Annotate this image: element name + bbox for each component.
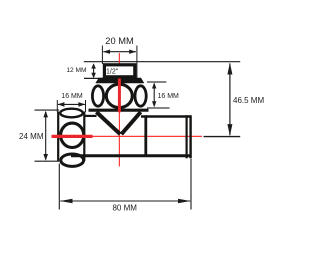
nut baseline [89, 109, 149, 112]
pipe end cap inner line [186, 115, 188, 158]
dimension 20 MM extension line left [101, 46, 103, 65]
dimension 24 MM extension lines [35, 109, 60, 111]
body bottom line [71, 154, 191, 157]
funnel V right stroke [121, 112, 140, 134]
svg-text:1/2": 1/2" [106, 69, 119, 76]
dimension 46.5 MM bottom tick line [204, 136, 241, 138]
dimension 16 MM (right of nut) top extension line [147, 81, 166, 83]
dimension 16 MM (right of nut) double arrow [152, 83, 156, 108]
pipe end cap outer line [189, 115, 191, 158]
pipe top line [141, 115, 191, 117]
svg-text:12 MM: 12 MM [66, 67, 86, 74]
dimension 80 MM line with outward arrows [60, 199, 191, 204]
dimension 80 MM left extension line [58, 164, 60, 210]
svg-text:16 MM: 16 MM [158, 93, 180, 100]
nut right ellipse [135, 86, 146, 106]
nut left ellipse [92, 86, 103, 106]
left cylinder top ellipse [60, 109, 83, 118]
dimension 46.5 MM vertical line with arrows [227, 63, 232, 136]
collar flange (black) [95, 78, 144, 84]
thick red horizontal centerline through left cylinder (over black) [52, 135, 93, 138]
dimension 16 MM (left) line with outward arrows [58, 102, 86, 107]
dimension 24 MM double arrow [43, 111, 48, 161]
left cylinder right side [83, 112, 85, 161]
body top shelf left of V [84, 115, 97, 117]
nut center ellipse [106, 84, 132, 107]
left cylinder left side [57, 112, 59, 161]
dimension 16 MM (left) extension lines [56, 100, 58, 112]
left cylinder middle ellipse [61, 123, 84, 147]
svg-text:20 MM: 20 MM [105, 36, 133, 46]
thick red vertical centerline through nut (over black) [118, 79, 121, 113]
dimension 16 MM (right of nut) bottom extension line [147, 107, 170, 109]
thin red vertical centerline of top port [118, 53, 120, 167]
1/2 inch threaded fitting rectangle [104, 65, 134, 77]
svg-text:16 MM: 16 MM [61, 93, 83, 100]
left cylinder bottom ellipse [61, 154, 84, 166]
dimension 80 MM right extension line [190, 159, 192, 210]
svg-text:80 MM: 80 MM [112, 204, 137, 213]
pipe left edge [144, 115, 147, 155]
svg-text:24 MM: 24 MM [19, 132, 44, 141]
top extension line (long, at top of 1/2 inch fitting, runs to 46.5MM dim) [84, 61, 240, 63]
thin red horizontal centerline of pipe [52, 135, 203, 137]
dimension 20 MM line with outward arrows [103, 50, 136, 54]
dimension 12 MM bottom extension line [84, 77, 104, 79]
funnel V left stroke [96, 112, 120, 134]
dimension 20 MM extension line right [136, 46, 138, 80]
svg-text:46.5 MM: 46.5 MM [233, 96, 264, 105]
dimension 12 MM double arrow [91, 63, 96, 78]
